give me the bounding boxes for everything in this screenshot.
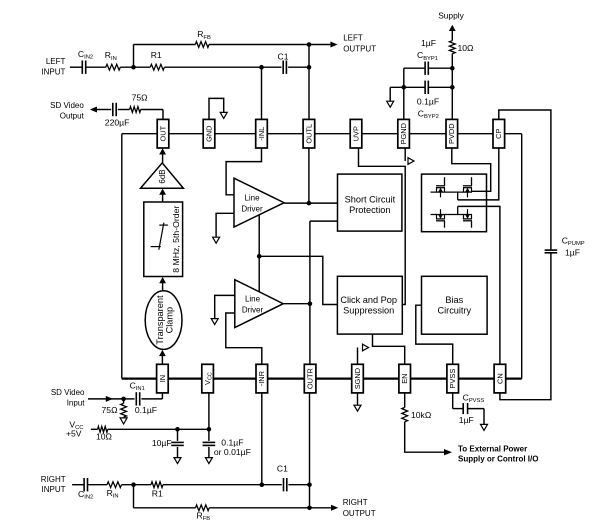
svg-text:Input: Input bbox=[67, 398, 86, 407]
svg-text:220µF: 220µF bbox=[105, 117, 130, 127]
svg-text:Click and Pop: Click and Pop bbox=[340, 295, 397, 305]
svg-text:Output: Output bbox=[60, 111, 85, 120]
svg-text:CP: CP bbox=[494, 129, 503, 139]
svg-text:PVSS: PVSS bbox=[448, 369, 457, 389]
svg-text:Protection: Protection bbox=[349, 205, 390, 215]
svg-text:Transparent: Transparent bbox=[155, 295, 165, 345]
svg-text:OUT: OUT bbox=[158, 125, 167, 141]
svg-text:Circuitry: Circuitry bbox=[437, 306, 471, 316]
svg-text:Bias: Bias bbox=[445, 295, 463, 305]
svg-text:EN: EN bbox=[400, 373, 409, 383]
svg-text:Driver: Driver bbox=[242, 305, 264, 314]
svg-text:1µF: 1µF bbox=[421, 38, 436, 48]
svg-text:10µF: 10µF bbox=[152, 438, 172, 448]
svg-text:IN: IN bbox=[158, 375, 167, 382]
svg-text:To External Power: To External Power bbox=[458, 444, 527, 453]
svg-text:PGND: PGND bbox=[399, 123, 408, 144]
svg-text:SD Video: SD Video bbox=[50, 101, 84, 110]
svg-text:Driver: Driver bbox=[241, 204, 263, 213]
svg-text:RIGHT: RIGHT bbox=[343, 498, 368, 507]
svg-text:Clamp: Clamp bbox=[165, 307, 175, 334]
svg-text:-INL: -INL bbox=[257, 127, 266, 141]
svg-text:8 MHz, 5th-Order: 8 MHz, 5th-Order bbox=[171, 206, 181, 273]
svg-text:SD Video: SD Video bbox=[51, 388, 85, 397]
svg-text:0.1µF: 0.1µF bbox=[221, 437, 243, 447]
svg-text:R1: R1 bbox=[152, 488, 163, 498]
svg-text:PVDD: PVDD bbox=[447, 123, 456, 144]
svg-text:1µF: 1µF bbox=[459, 415, 474, 425]
svg-text:C1: C1 bbox=[277, 464, 288, 474]
svg-text:SGND: SGND bbox=[353, 368, 362, 389]
svg-text:C1: C1 bbox=[278, 51, 289, 61]
svg-text:Line: Line bbox=[245, 294, 261, 303]
svg-text:1µF: 1µF bbox=[565, 248, 580, 258]
svg-text:LEFT: LEFT bbox=[343, 34, 363, 43]
svg-text:6dB: 6dB bbox=[158, 169, 167, 183]
svg-text:Suppression: Suppression bbox=[343, 306, 394, 316]
svg-text:75Ω: 75Ω bbox=[132, 93, 149, 103]
svg-text:Supply: Supply bbox=[438, 10, 464, 20]
svg-text:0.1µF: 0.1µF bbox=[135, 405, 157, 415]
svg-text:RIGHT: RIGHT bbox=[41, 475, 66, 484]
svg-text:10Ω: 10Ω bbox=[96, 432, 113, 442]
svg-text:OUTPUT: OUTPUT bbox=[343, 509, 376, 518]
svg-text:-INR: -INR bbox=[257, 371, 266, 386]
svg-text:INPUT: INPUT bbox=[42, 485, 66, 494]
svg-text:or 0.01µF: or 0.01µF bbox=[214, 447, 251, 457]
svg-text:UVP: UVP bbox=[351, 126, 360, 141]
svg-text:10kΩ: 10kΩ bbox=[411, 410, 432, 420]
svg-text:R1: R1 bbox=[151, 50, 162, 60]
svg-text:OUTR: OUTR bbox=[306, 368, 315, 389]
svg-text:Short Circuit: Short Circuit bbox=[345, 194, 396, 204]
svg-text:Line: Line bbox=[244, 193, 260, 202]
svg-text:LEFT: LEFT bbox=[46, 57, 66, 66]
svg-text:CN: CN bbox=[495, 373, 504, 384]
svg-text:10Ω: 10Ω bbox=[458, 43, 475, 53]
svg-text:75Ω: 75Ω bbox=[102, 405, 119, 415]
svg-text:OUTL: OUTL bbox=[304, 124, 313, 144]
svg-text:INPUT: INPUT bbox=[41, 68, 65, 77]
svg-text:0.1µF: 0.1µF bbox=[417, 97, 439, 107]
svg-text:OUTPUT: OUTPUT bbox=[343, 44, 376, 53]
svg-text:+5V: +5V bbox=[66, 429, 82, 439]
svg-text:GND: GND bbox=[204, 125, 213, 141]
svg-text:Supply or Control I/O: Supply or Control I/O bbox=[458, 454, 538, 463]
